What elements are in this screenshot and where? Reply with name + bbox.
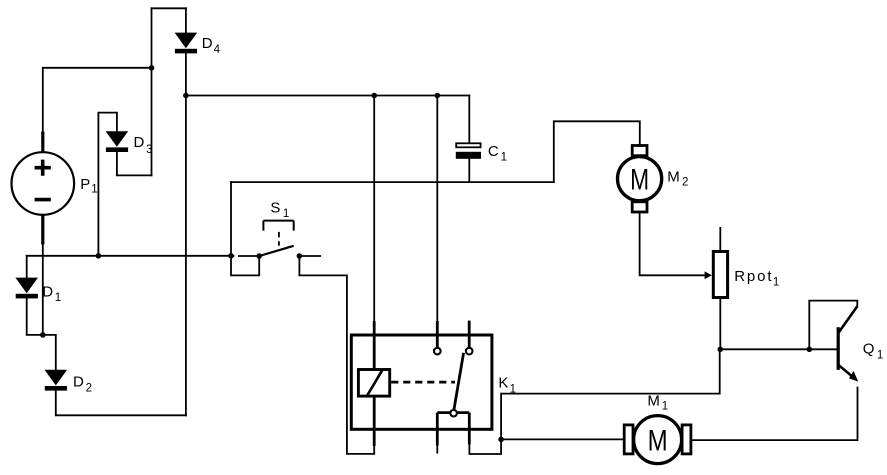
diode D3 bbox=[106, 131, 129, 152]
node top net coil junction bbox=[371, 93, 377, 99]
svg-text:S: S bbox=[270, 199, 280, 216]
wire P1 top to top-left corner bbox=[43, 68, 152, 152]
svg-text:D: D bbox=[73, 373, 84, 390]
svg-text:1: 1 bbox=[510, 383, 516, 395]
svg-text:D: D bbox=[202, 35, 213, 52]
capacitor C1 bbox=[456, 143, 481, 159]
transistor Q1 bbox=[837, 306, 859, 381]
node D3 branch junction bbox=[96, 253, 102, 259]
svg-text:M: M bbox=[667, 168, 680, 185]
wire D3 cathode to left vertical bbox=[117, 152, 152, 175]
wire relay NC top long vertical bbox=[436, 96, 438, 322]
svg-text:M: M bbox=[648, 424, 668, 457]
wire S1 right to relay coil bbox=[299, 256, 374, 454]
svg-text:4: 4 bbox=[214, 44, 221, 56]
svg-text:1: 1 bbox=[283, 208, 289, 220]
wire middle horizontal net bbox=[231, 181, 554, 183]
voltage source P1 bbox=[12, 132, 75, 245]
wire M1 left to K1 node bbox=[501, 438, 624, 440]
svg-text:K: K bbox=[498, 375, 508, 392]
switch S1 bbox=[239, 221, 320, 259]
svg-text:C: C bbox=[488, 143, 499, 160]
svg-text:1: 1 bbox=[55, 292, 61, 304]
wire K1 node to relay common pin bbox=[469, 439, 501, 454]
svg-text:Rpot: Rpot bbox=[734, 268, 773, 285]
wire D1 top lead bbox=[26, 256, 28, 278]
svg-text:1: 1 bbox=[773, 276, 779, 288]
wire D4 top lead bbox=[185, 8, 187, 33]
relay K1 bbox=[351, 321, 492, 454]
wire P1 bottom bbox=[42, 215, 44, 335]
diode D1 bbox=[15, 278, 38, 299]
potentiometer Rpot1 bbox=[713, 228, 727, 298]
node S1 left junction bbox=[228, 253, 234, 259]
motor M1 bbox=[624, 416, 691, 464]
wire emitter down bbox=[691, 388, 858, 441]
svg-text:D: D bbox=[42, 283, 53, 300]
wire top net horizontal bbox=[186, 95, 469, 97]
svg-text:3: 3 bbox=[146, 144, 152, 156]
wire top bridge bbox=[152, 7, 186, 9]
node top net NC junction bbox=[435, 93, 441, 99]
diode D4 bbox=[175, 33, 198, 54]
svg-text:2: 2 bbox=[682, 177, 688, 189]
svg-text:1: 1 bbox=[877, 350, 883, 362]
node Rpot1/base junction bbox=[718, 347, 724, 353]
wire left vertical from top bridge bbox=[151, 8, 153, 175]
wire D2 bottom to D4 vertical bbox=[56, 391, 186, 416]
wire S1 left U loop bbox=[231, 256, 259, 276]
svg-text:P: P bbox=[80, 176, 90, 193]
node top-left junction bbox=[149, 65, 155, 71]
node base/collector junction bbox=[807, 347, 813, 353]
wire K1 node to Rpot junction bbox=[501, 349, 720, 439]
svg-text:2: 2 bbox=[86, 383, 92, 395]
wire base net bbox=[720, 348, 837, 350]
node K1 output junction bbox=[498, 437, 504, 443]
svg-text:1: 1 bbox=[501, 151, 507, 163]
wire D1 bottom / junction horizontal bbox=[27, 298, 56, 370]
diode D2 bbox=[45, 370, 68, 391]
wire C1 top lead bbox=[468, 96, 470, 144]
wire C1 bottom lead bbox=[468, 159, 470, 182]
wire Rpot bottom lead bbox=[719, 299, 721, 349]
svg-text:1: 1 bbox=[662, 400, 668, 412]
wire S1 riser to middle net bbox=[230, 182, 232, 256]
wire riser to M2 bbox=[554, 121, 640, 182]
svg-text:M: M bbox=[647, 393, 660, 410]
node P1/D1/D2 junction bbox=[40, 332, 46, 338]
wire M2 bottom to Rpot arrow bbox=[640, 212, 705, 275]
svg-text:D: D bbox=[134, 134, 145, 151]
wire D3 branch vertical bbox=[98, 113, 117, 256]
node D4 cathode junction bbox=[183, 93, 189, 99]
motor M2 bbox=[618, 146, 662, 213]
svg-text:Q: Q bbox=[863, 341, 875, 358]
svg-text:M: M bbox=[630, 163, 649, 196]
svg-text:1: 1 bbox=[91, 184, 97, 196]
wire main horizontal to S1 bbox=[27, 255, 234, 257]
arrowhead to Rpot1 bbox=[705, 271, 712, 279]
wire relay coil top long vertical bbox=[373, 96, 375, 322]
wire collector loop bbox=[809, 301, 857, 350]
wire D4 cathode long vertical bbox=[185, 53, 187, 415]
